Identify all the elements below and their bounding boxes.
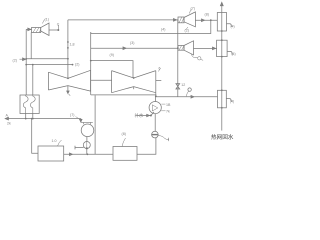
arrowhead HX3 feed <box>191 96 194 99</box>
svg-text:(4): (4) <box>161 28 165 32</box>
svg-text:(4): (4) <box>232 52 236 56</box>
node bowtie1 waist <box>67 77 69 79</box>
arrowhead into P1 top <box>80 119 82 122</box>
wire bottom right riser <box>137 138 156 154</box>
B2 waist bottom stub <box>133 87 135 90</box>
node A arrow <box>5 117 8 120</box>
wire T2 exhaust to HX1 <box>195 19 217 21</box>
svg-text:(8): (8) <box>122 132 126 136</box>
arrowhead T3 feed <box>123 47 126 50</box>
svg-text:(7): (7) <box>70 113 74 117</box>
node duct to pump <box>155 96 157 98</box>
box2 <box>113 147 137 161</box>
svg-text:(4): (4) <box>230 100 234 104</box>
wire drop to box1 <box>32 119 38 154</box>
svg-text:A: A <box>6 114 9 118</box>
valve to bottom header <box>86 149 88 155</box>
wire bottom header box1-box2 <box>64 153 113 155</box>
node T1 exhaust C <box>57 29 59 31</box>
node T3 feed junction <box>177 47 179 49</box>
arrowhead node2 left <box>23 58 26 61</box>
svg-text:(2): (2) <box>13 59 17 63</box>
svg-text:(9): (9) <box>110 53 114 57</box>
heat pump box (coils) <box>20 95 39 114</box>
wire T3 exhaust to HX2 <box>194 47 217 49</box>
heat exchanger HX1 <box>217 13 226 32</box>
wire left lower header y=64.6 <box>26 64 73 66</box>
valve left stub <box>75 146 84 150</box>
arrowhead T2 exhaust <box>202 19 205 22</box>
arrowhead T1 feed <box>28 28 31 31</box>
turbine T1 <box>41 23 49 36</box>
box2 label leader <box>122 138 126 147</box>
node riser dots <box>67 41 69 43</box>
HX2 drain <box>227 52 233 55</box>
heat exchanger HX3 <box>218 90 227 108</box>
arrowhead bottom header <box>70 153 73 156</box>
arrowhead hot water out (top) <box>220 2 223 5</box>
label leader T2 above <box>190 9 192 14</box>
turbine T2 <box>184 12 195 27</box>
node bowtie2 waist <box>133 77 135 79</box>
box1 <box>38 146 64 161</box>
wire crossover to bowtie2 left <box>91 79 112 81</box>
svg-text:2k: 2k <box>7 122 11 126</box>
coil outlets <box>26 114 33 119</box>
svg-text:7k: 7k <box>166 110 170 114</box>
arrowhead main steam into T2 <box>174 19 177 22</box>
P1 label leader <box>76 117 82 122</box>
B2 stub label leader <box>159 68 161 72</box>
HX1 drain <box>227 24 233 27</box>
box1 label leader <box>58 140 62 146</box>
B2 right stub <box>156 79 162 81</box>
svg-text:补水: 补水 <box>135 112 144 119</box>
node condensate joints <box>25 118 27 120</box>
svg-text:(7): (7) <box>191 7 195 11</box>
wire turbine T3 feed line y=48.2 <box>91 47 178 49</box>
node C riser <box>57 25 59 30</box>
svg-text:1.0: 1.0 <box>52 139 57 143</box>
svg-text:6: 6 <box>159 67 161 71</box>
condensate pump P2 <box>149 102 161 114</box>
svg-text:热网回水: 热网回水 <box>211 133 234 141</box>
pump PX circle <box>152 131 159 138</box>
valve circle V1 <box>83 142 90 149</box>
circled label bypass <box>188 88 191 91</box>
label leader T2 below <box>186 27 189 30</box>
wire left upper header y=58.8 <box>26 58 68 60</box>
turbine bowtie B1 (double-flow) <box>48 70 90 91</box>
arrowhead T3 exhaust into HX2 <box>213 47 216 50</box>
heat exchanger HX2 <box>217 40 228 56</box>
wire LP admission line y=60.6 <box>91 61 133 78</box>
svg-text:(1): (1) <box>45 18 49 22</box>
valve on bypass line <box>176 84 180 89</box>
turbine T1 inlet gland (hatched) <box>32 28 41 33</box>
wire duct to P2 <box>155 97 157 102</box>
coil 2 <box>30 95 35 114</box>
svg-text:(2): (2) <box>185 29 189 33</box>
wire riser left corner (main steam down-leg x=67.9) <box>67 20 69 78</box>
makeup water line <box>137 112 155 116</box>
coil 1 <box>23 95 28 114</box>
node tube crossings <box>221 30 223 32</box>
turbine T2 inlet gland (hatched) <box>178 17 184 23</box>
wire V2 from T1 gland down <box>30 33 32 59</box>
turbine T3 <box>184 41 194 55</box>
svg-text:(3): (3) <box>130 41 134 45</box>
turbine T3 inlet gland (hatched) <box>178 46 184 51</box>
node LP admission tee <box>90 60 92 62</box>
B2 right edge extension to duct <box>155 93 157 97</box>
node HX1 feed junction <box>210 19 212 21</box>
T3 drain leader <box>192 54 198 58</box>
P1 to valve circle <box>86 137 88 142</box>
turbine bowtie B2 (double-flow LP) <box>112 71 156 93</box>
svg-text:(8): (8) <box>205 13 209 17</box>
wire corner second pipe top <box>90 32 92 33</box>
svg-text:1,8: 1,8 <box>70 43 75 47</box>
pump P1 <box>81 124 94 137</box>
svg-text:C: C <box>57 23 60 27</box>
svg-text:(2): (2) <box>75 63 79 67</box>
HX3 drain <box>226 99 232 102</box>
B1 exhaust arrow <box>67 86 69 94</box>
tiny labels <box>6 7 236 144</box>
wire P2 down to PX <box>154 114 156 132</box>
wire condenser duct <box>91 95 218 97</box>
wire main steam pipe top <box>68 19 178 21</box>
wire coil pipe 2 <box>32 65 34 95</box>
wire vertical pipe x=90.8 <box>90 32 92 95</box>
svg-text:12: 12 <box>181 83 185 87</box>
wire second steam pipe y=33.5 with riser to HX1 feed <box>91 20 211 33</box>
wire T1 feed <box>26 29 31 95</box>
label leader T1 <box>43 19 46 23</box>
wire bypass vertical x=177.8 <box>177 20 179 97</box>
PX tail leader <box>158 135 168 139</box>
wire heated water tube through HX stack <box>221 5 223 131</box>
svg-text:(4): (4) <box>231 25 235 29</box>
wire T1 exhaust <box>49 29 58 31</box>
wire duct drain to header <box>94 95 96 154</box>
svg-text:1B: 1B <box>166 103 171 107</box>
wire condensate header y=118.6 <box>6 119 81 122</box>
